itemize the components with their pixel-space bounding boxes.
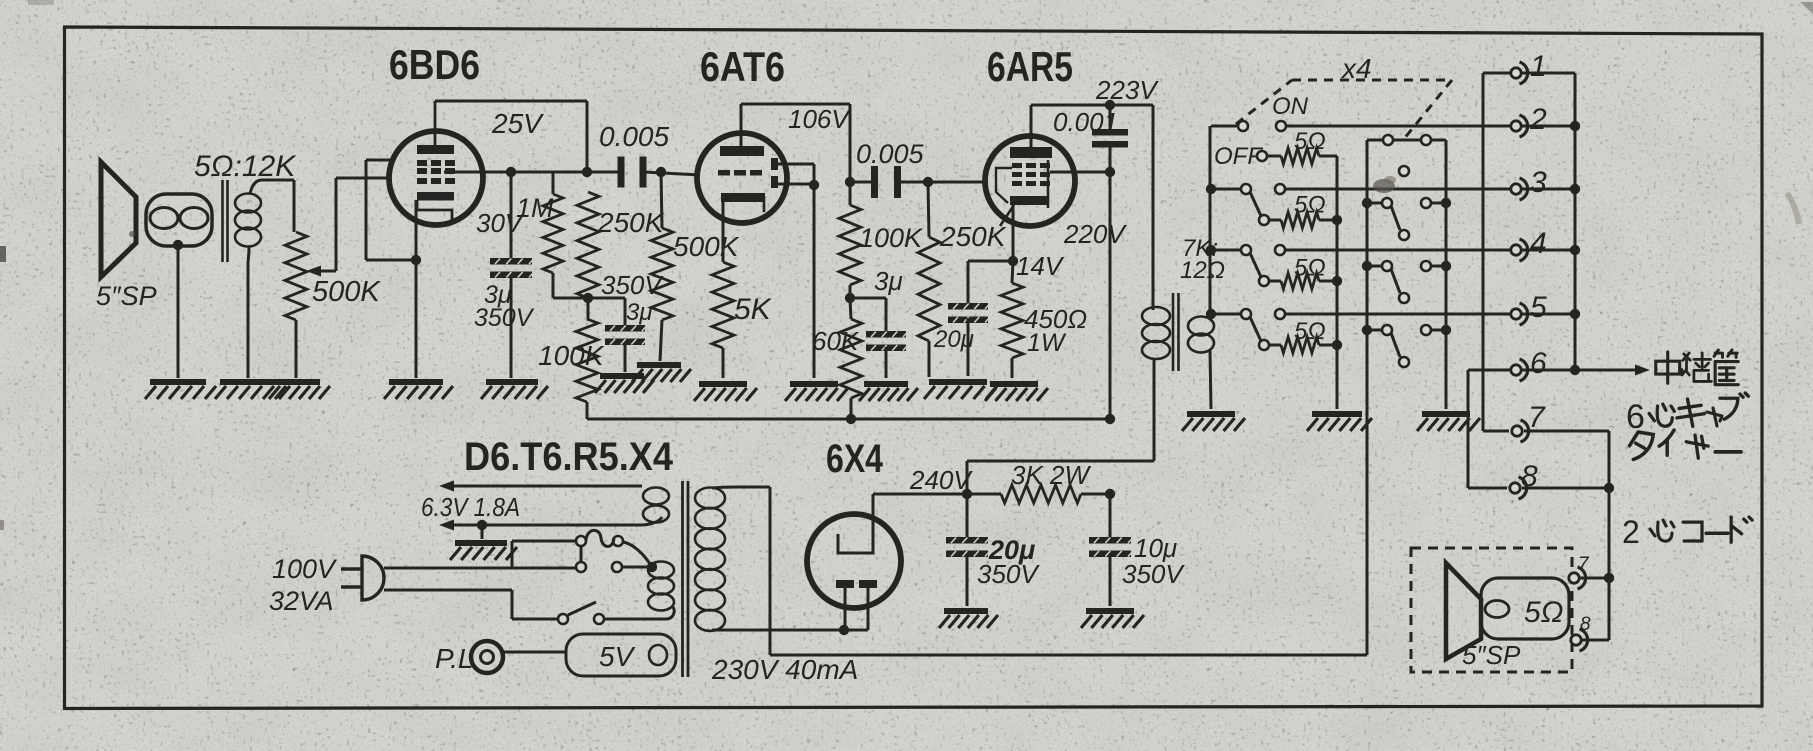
svg-text:106V: 106V xyxy=(788,104,851,134)
svg-text:6AR5: 6AR5 xyxy=(987,43,1073,90)
svg-text:D6.T6.R5.X4: D6.T6.R5.X4 xyxy=(464,435,674,479)
svg-text:25V: 25V xyxy=(491,108,544,139)
svg-text:0.005: 0.005 xyxy=(856,139,925,169)
svg-text:5Ω: 5Ω xyxy=(1294,255,1326,282)
svg-text:500K: 500K xyxy=(312,276,381,308)
svg-text:6: 6 xyxy=(1530,347,1547,380)
svg-text:5K: 5K xyxy=(734,293,773,326)
svg-text:P.L: P.L xyxy=(435,643,473,674)
svg-text:3: 3 xyxy=(1530,166,1547,199)
svg-text:14V: 14V xyxy=(1016,251,1065,281)
svg-text:220V: 220V xyxy=(1063,219,1127,249)
svg-text:100K: 100K xyxy=(538,340,605,371)
svg-text:5: 5 xyxy=(1530,291,1547,324)
svg-text:8: 8 xyxy=(1521,460,1538,493)
svg-text:7: 7 xyxy=(1528,401,1546,434)
svg-text:6BD6: 6BD6 xyxy=(389,41,480,88)
svg-text:5″SP: 5″SP xyxy=(1462,640,1521,670)
svg-text:350V: 350V xyxy=(1122,559,1185,589)
svg-text:0.001: 0.001 xyxy=(1053,107,1118,137)
svg-text:3μ: 3μ xyxy=(626,299,653,326)
svg-text:500K: 500K xyxy=(673,231,740,262)
svg-text:240V: 240V xyxy=(909,465,973,495)
svg-text:0.005: 0.005 xyxy=(599,121,669,152)
svg-text:20μ: 20μ xyxy=(933,326,974,353)
svg-text:3μ: 3μ xyxy=(874,266,903,296)
svg-text:230V 40mA: 230V 40mA xyxy=(711,654,858,685)
svg-text:3K 2W: 3K 2W xyxy=(1011,460,1091,490)
svg-text:350V: 350V xyxy=(977,559,1040,589)
svg-text:1M: 1M xyxy=(516,193,554,223)
svg-text:5V: 5V xyxy=(599,641,636,672)
svg-text:5Ω:12K: 5Ω:12K xyxy=(194,150,297,183)
svg-text:60K: 60K xyxy=(812,326,860,356)
svg-text:5Ω: 5Ω xyxy=(1294,191,1326,218)
svg-text:6.3V 1.8A: 6.3V 1.8A xyxy=(421,492,520,522)
svg-text:6: 6 xyxy=(1626,398,1645,436)
svg-text:4: 4 xyxy=(1530,227,1547,260)
svg-text:6X4: 6X4 xyxy=(826,437,884,481)
svg-text:8: 8 xyxy=(1580,614,1591,635)
svg-text:x4: x4 xyxy=(1340,53,1372,84)
svg-text:2: 2 xyxy=(1529,103,1547,136)
svg-text:5Ω: 5Ω xyxy=(1294,128,1326,155)
svg-text:1: 1 xyxy=(1530,50,1547,83)
svg-text:5Ω: 5Ω xyxy=(1294,318,1326,345)
svg-text:7: 7 xyxy=(1578,554,1590,575)
svg-text:5″SP: 5″SP xyxy=(96,281,157,311)
svg-text:250K: 250K xyxy=(597,207,665,238)
svg-text:100K: 100K xyxy=(859,223,923,253)
svg-text:100V: 100V xyxy=(272,554,338,584)
svg-text:1W: 1W xyxy=(1027,329,1067,357)
svg-text:223V: 223V xyxy=(1095,75,1159,105)
svg-text:250K: 250K xyxy=(939,221,1007,252)
svg-text:2: 2 xyxy=(1622,514,1640,550)
svg-text:350V: 350V xyxy=(474,304,535,332)
svg-text:6AT6: 6AT6 xyxy=(700,43,785,90)
svg-text:32VA: 32VA xyxy=(269,586,334,616)
svg-text:5Ω: 5Ω xyxy=(1524,596,1564,629)
svg-text:ON: ON xyxy=(1272,93,1309,120)
svg-text:12Ω: 12Ω xyxy=(1180,257,1225,284)
